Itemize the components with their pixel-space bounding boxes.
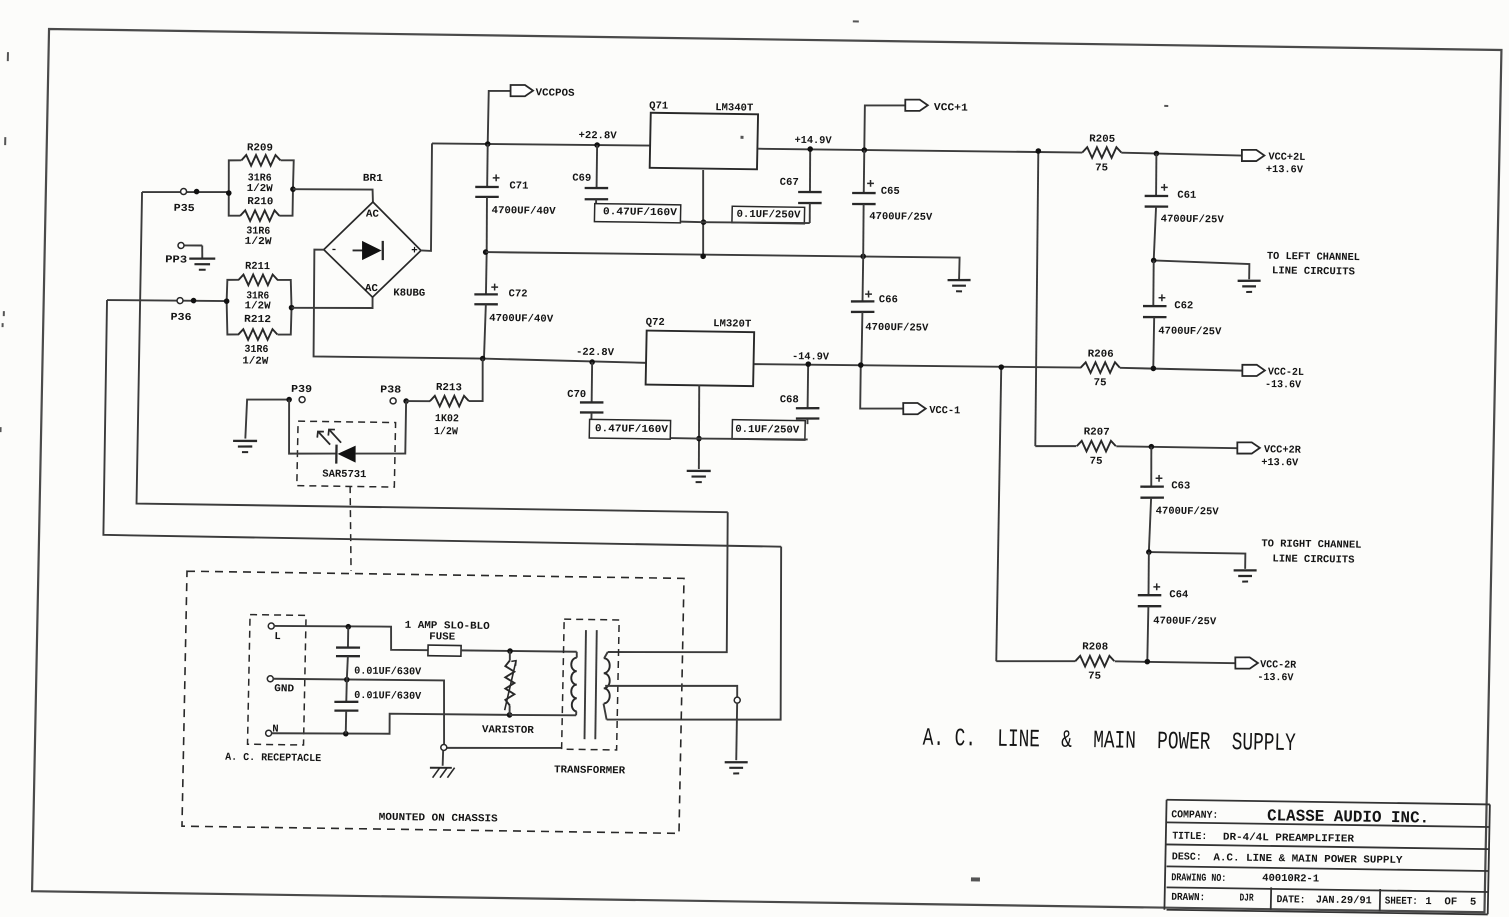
- svg-text:MOUNTED ON CHASSIS: MOUNTED ON CHASSIS: [379, 812, 498, 826]
- svg-text:VCCPOS: VCCPOS: [535, 87, 574, 100]
- svg-text:VCC-2R: VCC-2R: [1260, 659, 1297, 672]
- junction R209 left: [226, 190, 232, 196]
- junction VCC+1/C65: [861, 147, 867, 153]
- junction down-feed R208: [998, 364, 1004, 370]
- wire secondary top drop: [608, 510, 730, 653]
- junction C61/C62 mid: [1151, 258, 1157, 264]
- svg-text:1/2W: 1/2W: [434, 426, 459, 438]
- svg-text:TITLE:: TITLE:: [1172, 831, 1207, 844]
- svg-text:-13.6V: -13.6V: [1265, 379, 1302, 392]
- wire Q72 ground pin: [698, 385, 701, 469]
- wire VCCPOS stub: [488, 91, 511, 145]
- junction VCCPOS/C71: [485, 141, 491, 147]
- wire P36 net to secondary bottom (left drop): [102, 300, 785, 547]
- wire secondary bottom lead: [603, 704, 607, 720]
- varistor: [505, 660, 515, 705]
- terminal GND: [267, 676, 273, 682]
- wire +14.9V down-feed to R207: [1033, 151, 1042, 446]
- ground 0V mid rail: [948, 279, 971, 282]
- svg-text:R211: R211: [245, 261, 270, 273]
- junction C63/C64 mid: [1146, 549, 1152, 555]
- resistor R212: [238, 329, 277, 341]
- wire L to fuse: [274, 625, 429, 650]
- svg-text:R208: R208: [1082, 641, 1108, 653]
- wire secondary bottom drop: [607, 544, 784, 722]
- svg-text:TRANSFORMER: TRANSFORMER: [554, 764, 626, 777]
- wire P35 lead: [142, 191, 229, 193]
- capacitor C66: [862, 256, 863, 301]
- svg-text:TO LEFT CHANNEL: TO LEFT CHANNEL: [1267, 251, 1360, 264]
- svg-text:+13.6V: +13.6V: [1261, 457, 1299, 470]
- svg-text:A.C. LINE & MAIN POWER SUPPLY: A.C. LINE & MAIN POWER SUPPLY: [1213, 852, 1403, 867]
- svg-text:AC: AC: [366, 209, 380, 221]
- junction R211 right: [289, 305, 295, 311]
- resistor R213: [430, 395, 469, 406]
- svg-text:C66: C66: [879, 294, 898, 306]
- svg-text:Q72: Q72: [646, 317, 665, 329]
- wire BR1 plus to +22.8V rail: [421, 143, 433, 251]
- value box C68 0.1UF/250V: [732, 420, 805, 440]
- svg-text:CLASSE AUDIO INC.: CLASSE AUDIO INC.: [1267, 806, 1429, 827]
- wire primary top lead: [576, 652, 578, 658]
- svg-text:31R6: 31R6: [244, 344, 268, 356]
- junction C67 top: [807, 146, 813, 152]
- svg-text:75: 75: [1095, 162, 1108, 174]
- svg-text:0.47UF/160V: 0.47UF/160V: [603, 206, 678, 219]
- svg-text:R210: R210: [247, 196, 273, 208]
- svg-text:LM340T: LM340T: [715, 102, 753, 115]
- svg-text:75: 75: [1089, 456, 1102, 468]
- svg-text:+13.6V: +13.6V: [1266, 164, 1304, 177]
- wire Q72 gnd pin to C68: [699, 438, 808, 440]
- svg-text:C71: C71: [509, 180, 528, 192]
- svg-text:0.1UF/250V: 0.1UF/250V: [736, 209, 801, 222]
- svg-text:VCC+2R: VCC+2R: [1264, 444, 1302, 457]
- connector PP3: [178, 242, 184, 248]
- wire secondary center tap: [605, 684, 737, 697]
- svg-text:-22.8V: -22.8V: [576, 347, 615, 360]
- transformer core: [584, 630, 587, 739]
- svg-text:R212: R212: [244, 314, 271, 326]
- transformer dashed box: [562, 619, 620, 750]
- junction C64 bottom: [1144, 659, 1150, 665]
- capacitor C63: [1151, 447, 1152, 486]
- wire 0V mid rail: [485, 251, 959, 280]
- net flag VCC-1: [903, 403, 926, 415]
- svg-text:FUSE: FUSE: [429, 631, 455, 643]
- receptacle dashed box: [248, 615, 307, 745]
- net flag VCC-2L: [1242, 365, 1265, 377]
- svg-text:P36: P36: [170, 312, 191, 324]
- svg-text:C65: C65: [881, 186, 900, 198]
- wire Q71 gnd pin to C67: [704, 222, 810, 224]
- wire P39 into SAR5731: [288, 400, 337, 455]
- wire R208 to flag VCC-2R: [1115, 661, 1236, 663]
- svg-text:0.01UF/630V: 0.01UF/630V: [354, 666, 422, 679]
- svg-text:VCC+1: VCC+1: [934, 102, 968, 114]
- svg-text:DJR: DJR: [1239, 893, 1254, 905]
- value box C67 0.1UF/250V: [732, 206, 805, 223]
- svg-text:C69: C69: [572, 173, 591, 185]
- junction R209 right: [290, 186, 296, 192]
- svg-text:1 OF 5: 1 OF 5: [1425, 896, 1476, 909]
- wire R206 to flag VCC-2L: [1120, 368, 1243, 371]
- svg-text:C63: C63: [1171, 480, 1190, 492]
- svg-text:+: +: [411, 245, 418, 257]
- resistor R207: [1077, 440, 1116, 451]
- svg-text:SHEET:: SHEET:: [1385, 896, 1418, 908]
- ground P39: [233, 439, 257, 442]
- junction C72/R213 node: [480, 356, 486, 362]
- svg-text:1/2W: 1/2W: [247, 183, 274, 195]
- svg-text:1K02: 1K02: [435, 413, 459, 425]
- wire C70 box to Q72 gnd pin: [671, 437, 699, 440]
- svg-text:VARISTOR: VARISTOR: [482, 724, 535, 737]
- svg-text:P39: P39: [291, 384, 312, 396]
- regulator Q71 LM340T body: [650, 113, 758, 170]
- svg-text:A. C. RECEPTACLE: A. C. RECEPTACLE: [225, 752, 321, 765]
- net flag VCC-2R: [1235, 657, 1258, 669]
- svg-text:4700UF/25V: 4700UF/25V: [1153, 615, 1217, 628]
- svg-text:LM320T: LM320T: [713, 318, 751, 331]
- svg-text:JAN.29/91: JAN.29/91: [1316, 895, 1372, 908]
- svg-text:4700UF/25V: 4700UF/25V: [869, 211, 933, 224]
- wire down-feed corner to R207: [1035, 446, 1076, 447]
- wire left channel tap: [1153, 260, 1249, 279]
- chassis dashed box: [182, 571, 684, 833]
- junction C63 top: [1148, 444, 1154, 450]
- wire P39 to ground: [245, 399, 289, 439]
- regulator Q72 LM320T body: [646, 331, 755, 387]
- chassis ground symbol: [430, 766, 452, 769]
- capacitor C69: [596, 145, 597, 188]
- svg-text:VCC-2L: VCC-2L: [1268, 366, 1304, 379]
- terminal N: [266, 730, 272, 736]
- svg-text:-13.6V: -13.6V: [1257, 672, 1294, 685]
- ground right channel: [1234, 569, 1257, 572]
- wire C69 box to Q71 gnd pin: [681, 221, 704, 224]
- svg-text:C67: C67: [780, 177, 799, 189]
- junction Q72 gnd pin / cap boxes: [696, 436, 702, 442]
- svg-text:COMPANY:: COMPANY:: [1171, 809, 1218, 822]
- wire R213 to -22.8V node: [469, 358, 484, 401]
- wire R209 to BR1 AC top: [293, 188, 373, 202]
- wire chassis ground run: [446, 746, 562, 749]
- connector P35: [181, 188, 187, 194]
- scan specks: [0, 8, 1170, 884]
- svg-text:40010R2-1: 40010R2-1: [1262, 873, 1319, 886]
- net flag VCC+1: [905, 99, 928, 111]
- diode inside BR1: [353, 249, 363, 251]
- svg-text:1/2W: 1/2W: [244, 300, 271, 312]
- junction C70 top: [589, 359, 595, 365]
- wire R205 to flag VCC+2L: [1121, 153, 1242, 156]
- ground transformer center tap: [725, 761, 748, 764]
- bridge rectifier BR1 body: [323, 201, 422, 298]
- connector P38: [390, 398, 396, 404]
- svg-text:C64: C64: [1169, 589, 1188, 601]
- svg-text:4700UF/25V: 4700UF/25V: [1156, 505, 1220, 518]
- svg-text:4700UF/25V: 4700UF/25V: [1158, 325, 1222, 338]
- svg-text:BR1: BR1: [363, 173, 383, 185]
- svg-text:GND: GND: [274, 683, 294, 695]
- wire GND run: [272, 678, 445, 744]
- wire R207 to flag VCC+2R: [1116, 446, 1237, 448]
- LED inside SAR5731: [335, 445, 338, 464]
- wire center tap to ground: [736, 703, 737, 760]
- capacitor C65: [863, 150, 864, 193]
- resistor R211: [238, 274, 277, 286]
- wire -14.9V down-feed to R208: [995, 367, 1002, 661]
- svg-text:DRAWING NO:: DRAWING NO:: [1171, 872, 1226, 885]
- net flag VCCPOS: [510, 85, 533, 97]
- svg-text:AC: AC: [365, 283, 379, 295]
- capacitor C61: [1156, 154, 1157, 196]
- svg-text:C68: C68: [780, 394, 799, 406]
- svg-text:SAR5731: SAR5731: [322, 469, 366, 482]
- capacitor line filter 1: [347, 627, 350, 648]
- dashed link SAR5731 to chassis: [348, 486, 352, 571]
- connector P39: [299, 397, 305, 403]
- svg-text:R207: R207: [1084, 426, 1110, 438]
- junction C69 top: [594, 142, 600, 148]
- junction C62 bottom: [1151, 366, 1157, 372]
- junction C71/C72 midpoint: [483, 249, 489, 255]
- junction N cap node: [343, 731, 349, 737]
- svg-text:R213: R213: [436, 382, 462, 394]
- svg-text:DR-4/4L PREAMPLIFIER: DR-4/4L PREAMPLIFIER: [1223, 832, 1355, 846]
- capacitor C70: [591, 362, 592, 402]
- svg-text:C61: C61: [1177, 190, 1196, 202]
- wire VCC-1 stub: [860, 365, 904, 409]
- capacitor C67: [809, 149, 810, 192]
- resistor R206: [1081, 362, 1120, 374]
- wire P35 net to secondary top (left drop): [136, 192, 734, 512]
- LED light arrows: [318, 432, 330, 444]
- svg-text:LINE CIRCUITS: LINE CIRCUITS: [1272, 553, 1354, 566]
- wire right channel tap: [1149, 552, 1246, 569]
- svg-text:K8UBG: K8UBG: [393, 287, 425, 299]
- junction varistor top: [507, 648, 513, 654]
- fuse body: [428, 645, 461, 656]
- net flag VCC+2R: [1237, 442, 1260, 454]
- junction varistor bottom: [507, 712, 513, 718]
- wire VCC+1 stub: [864, 105, 905, 151]
- svg-text:C72: C72: [508, 288, 527, 300]
- wire P38 into SAR5731: [356, 400, 407, 454]
- net flag VCC+2L: [1242, 150, 1265, 162]
- svg-text:C62: C62: [1174, 300, 1193, 312]
- junction VCC-1 node: [858, 362, 864, 368]
- connector chassis gnd circle: [441, 744, 447, 750]
- svg-text:0.01UF/630V: 0.01UF/630V: [354, 690, 422, 703]
- junction R211 left: [224, 298, 230, 304]
- capacitor C68: [807, 365, 808, 408]
- svg-text:4700UF/25V: 4700UF/25V: [865, 322, 929, 335]
- resistor R209: [241, 155, 280, 167]
- wire secondary top lead: [604, 652, 608, 658]
- svg-text:R209: R209: [247, 142, 273, 154]
- svg-text:4700UF/40V: 4700UF/40V: [491, 205, 556, 218]
- terminal L: [268, 623, 274, 629]
- ground PP3: [189, 257, 215, 260]
- wire -22.8V rail: [483, 359, 647, 363]
- capacitor C64: [1148, 552, 1149, 595]
- wire Q72 output -14.9V rail: [754, 363, 1081, 369]
- junction C68 top: [805, 361, 811, 367]
- svg-text:+22.8V: +22.8V: [578, 130, 617, 143]
- resistor R205: [1082, 147, 1121, 159]
- value box C69 0.47UF/160V: [594, 204, 680, 223]
- wire R209/R210 loop: [228, 160, 241, 193]
- svg-text:R205: R205: [1089, 133, 1115, 145]
- connector center tap circle: [734, 697, 740, 703]
- junction C61 top: [1154, 151, 1160, 157]
- svg-text:L: L: [274, 631, 281, 643]
- wire P38 to R213: [406, 400, 430, 403]
- junction down-feed R207: [1035, 148, 1041, 154]
- value box C70 0.47UF/160V: [589, 419, 670, 439]
- svg-text:VCC-1: VCC-1: [929, 405, 960, 417]
- svg-text:75: 75: [1088, 671, 1101, 683]
- title block frame: [1164, 800, 1489, 915]
- svg-text:DRAWN:: DRAWN:: [1171, 892, 1205, 904]
- svg-text:DESC:: DESC:: [1172, 851, 1202, 863]
- transformer primary coil: [570, 658, 577, 712]
- wire fuse to varistor/primary: [461, 650, 577, 652]
- ground left channel: [1238, 279, 1261, 282]
- wire +22.8V rail: [432, 142, 651, 146]
- resistor R208: [1075, 655, 1114, 667]
- svg-text:R206: R206: [1088, 348, 1114, 360]
- connector P36: [177, 298, 183, 304]
- svg-text:Q71: Q71: [649, 100, 668, 112]
- junction L cap1: [345, 624, 351, 630]
- svg-text:1/2W: 1/2W: [242, 355, 269, 367]
- capacitor C62: [1153, 260, 1154, 305]
- svg-text:75: 75: [1093, 377, 1106, 389]
- svg-text:0.1UF/250V: 0.1UF/250V: [735, 424, 800, 437]
- svg-text:C70: C70: [567, 389, 586, 401]
- svg-text:4700UF/40V: 4700UF/40V: [489, 313, 554, 326]
- wire Q71 ground pin: [701, 170, 704, 256]
- svg-text:PP3: PP3: [165, 254, 187, 266]
- wire Q71 output +14.9V rail: [758, 148, 1082, 154]
- wire N run: [272, 711, 510, 736]
- junction Q71 gnd pin / cap boxes: [701, 219, 707, 225]
- svg-text:VCC+2L: VCC+2L: [1268, 151, 1305, 164]
- resistor R210: [240, 210, 279, 222]
- junction 0V rail C65/C66: [860, 253, 866, 259]
- wire down-feed corner to R208: [996, 660, 1075, 662]
- wire R211 to BR1 AC bottom: [292, 296, 373, 309]
- svg-text:P38: P38: [380, 384, 401, 396]
- ground Q72 pin: [687, 469, 711, 472]
- wire R211/R212 loop: [227, 280, 239, 302]
- wire primary bottom lead: [575, 712, 577, 716]
- wire P36 lead: [107, 299, 227, 301]
- capacitor C71: [487, 144, 488, 186]
- svg-text:-14.9V: -14.9V: [792, 351, 830, 364]
- svg-text:1/2W: 1/2W: [244, 236, 272, 248]
- svg-text:-: -: [331, 244, 338, 256]
- wire PP3 lead: [184, 244, 202, 246]
- optocoupler SAR5731 dashed box: [297, 421, 396, 487]
- svg-text:+14.9V: +14.9V: [794, 135, 832, 148]
- transformer secondary coil: [603, 658, 611, 703]
- capacitor line filter 2: [345, 680, 348, 702]
- junction 0V rail Q71 pin: [700, 253, 706, 259]
- junction GND cap node: [344, 677, 350, 683]
- wire BR1 minus to -22.8V rail: [312, 250, 485, 359]
- svg-text:TO RIGHT CHANNEL: TO RIGHT CHANNEL: [1261, 538, 1361, 551]
- capacitor C72: [485, 251, 488, 294]
- svg-text:4700UF/25V: 4700UF/25V: [1161, 213, 1225, 226]
- svg-text:LINE CIRCUITS: LINE CIRCUITS: [1272, 265, 1355, 278]
- svg-text:A. C. LINE & MAIN POWER S: A. C. LINE & MAIN POWER SUPPLY: [922, 724, 1296, 758]
- svg-text:P35: P35: [174, 203, 195, 215]
- svg-text:DATE:: DATE:: [1276, 894, 1305, 906]
- svg-text:0.47UF/160V: 0.47UF/160V: [595, 423, 669, 436]
